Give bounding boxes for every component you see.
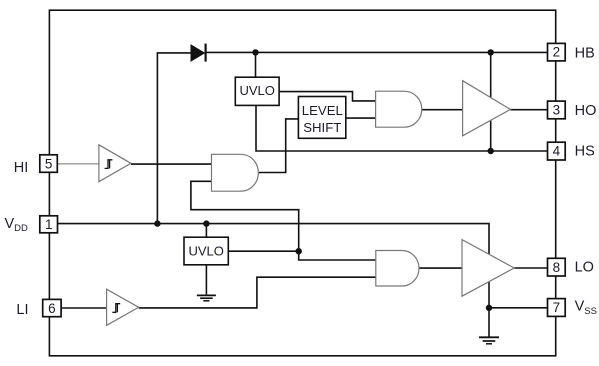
diode D1 bootstrap — [191, 44, 206, 62]
svg-text:7: 7 — [553, 300, 561, 315]
pin 7 box — [548, 299, 566, 317]
svg-text:4: 4 — [553, 144, 561, 159]
wire: diode anode branch from VDD rail — [157, 53, 191, 224]
svg-text:HI: HI — [14, 160, 29, 176]
wire: UVLO (low side) ground lead — [205, 265, 207, 295]
svg-text:LO: LO — [575, 259, 594, 275]
node: HB/UVLO junction — [252, 49, 258, 55]
schmitt buffer U1 (HI input) — [99, 145, 131, 182]
svg-text:VSS: VSS — [575, 299, 597, 317]
pin 2 box — [548, 43, 566, 61]
UVLO block (high side) — [235, 77, 279, 105]
pin 3 box — [548, 101, 566, 119]
wire: LEVEL SHIFT output to AND2 lower input — [346, 117, 376, 119]
wire: UVLO (low side) output through node A to AND3 upper input — [228, 251, 375, 260]
wire: AND2 output to HO driver input — [422, 109, 463, 111]
wire: HB net from diode cathode to pin 2 — [206, 51, 548, 53]
IC boundary box — [49, 10, 555, 356]
wire: HI buffer output to AND1 top input — [131, 163, 212, 165]
node: VDD/diode junction — [154, 220, 160, 226]
wire: VDD net from pin 1 across and down to LO driver (behind driver) — [58, 224, 489, 308]
wire: AND1 lower input routing down to node A — [191, 181, 299, 251]
svg-text:2: 2 — [553, 45, 561, 60]
svg-text:HO: HO — [575, 103, 597, 119]
ground (VSS) — [479, 337, 499, 344]
pin 4 box — [548, 142, 566, 160]
pin 6 box — [43, 299, 61, 316]
wire: UVLO (high side) output to AND2 upper input — [279, 92, 376, 101]
svg-text:8: 8 — [553, 260, 561, 275]
svg-text:UVLO: UVLO — [188, 244, 223, 259]
schmitt symbol in U2 — [112, 304, 120, 313]
LEVEL SHIFT block — [298, 97, 345, 139]
node: HS/driver rail junction — [488, 148, 494, 154]
svg-text:1: 1 — [45, 217, 53, 232]
wire: LO driver output to pin 8 — [514, 267, 547, 269]
wire: VSS ground lead — [488, 308, 490, 337]
AND gate G2 (high side, level-shift path) — [376, 91, 422, 127]
svg-text:HB: HB — [575, 45, 595, 61]
pin 8 box — [548, 258, 566, 276]
node A: UVLO out / AND1 input / AND3 input junction — [296, 248, 302, 254]
svg-text:SHIFT: SHIFT — [303, 120, 341, 135]
schmitt symbol in U1 — [105, 160, 113, 169]
svg-text:5: 5 — [45, 156, 53, 171]
wire: LI pin6 to LI buffer input — [61, 307, 107, 309]
wire: AND1 output up to LEVEL SHIFT input — [258, 119, 298, 173]
AND gate G3 (low side) — [376, 251, 419, 287]
svg-text:UVLO: UVLO — [239, 83, 274, 98]
svg-text:LEVEL: LEVEL — [302, 103, 343, 118]
wire: VSS net from driver rail to pin 7 — [489, 307, 548, 309]
schmitt buffer U2 (LI input) — [107, 289, 139, 325]
wire: UVLO (high side) lower pin to HS net and pin 4 — [256, 105, 548, 151]
pin 1 box — [40, 216, 58, 233]
wire: HO driver output to pin 3 — [510, 109, 547, 111]
wire: AND3 output to LO driver input — [419, 267, 462, 269]
svg-text:VDD: VDD — [5, 216, 29, 234]
svg-text:3: 3 — [553, 103, 561, 118]
wire: LI buffer output to AND3 lower input — [139, 277, 376, 308]
svg-text:HS: HS — [575, 144, 595, 160]
node: VDD/UVLO junction — [203, 220, 209, 226]
wire: UVLO (low side) input from VDD — [205, 224, 207, 238]
wire: UVLO (high side) input from HB — [255, 52, 257, 77]
AND gate G1 (middle, HI path) — [212, 154, 259, 191]
wire: HO driver supply rail HB to HS (behind driver) — [490, 52, 492, 151]
wire: HI pin5 to HI buffer input (gray) — [57, 163, 99, 165]
svg-text:6: 6 — [48, 301, 56, 316]
pin 5 box — [40, 155, 58, 173]
driver U3 (HO output buffer) — [463, 81, 511, 136]
ground (low side UVLO) — [197, 295, 216, 300]
node: VSS/driver/ground junction — [486, 305, 492, 311]
driver U4 (LO output buffer) — [462, 240, 514, 297]
svg-text:LI: LI — [16, 302, 28, 318]
node: HB/driver rail junction — [488, 49, 494, 55]
UVLO block (low side) — [184, 237, 228, 265]
